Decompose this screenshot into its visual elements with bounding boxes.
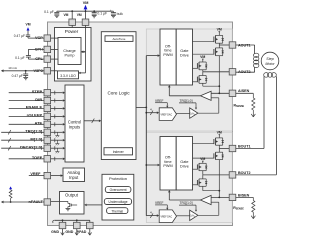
- svg-text:nSLEEP: nSLEEP: [27, 113, 43, 118]
- svg-text:VM: VM: [200, 157, 205, 161]
- pin BISEN: [229, 194, 236, 200]
- svg-text:ATE: ATE: [34, 121, 42, 126]
- gate lead HS-A2: [193, 67, 198, 69]
- wire GND rail: [55, 219, 90, 221]
- resistor RSENSE B: [236, 196, 254, 198]
- block Gate Drive B: [176, 137, 192, 191]
- svg-text:ENABLE: ENABLE: [26, 105, 43, 110]
- wire Protection to Output: [87, 204, 102, 206]
- wire winding B right lead to BOUT2: [275, 76, 277, 174]
- wire winding A to AOUT2: [254, 67, 256, 72]
- transistor HS-B2: [199, 162, 206, 164]
- bus vertical (to DACs and PWMs): [145, 56, 147, 216]
- svg-text:3.3-V LDO: 3.3-V LDO: [60, 74, 76, 78]
- capacitor 0.47uF (VCP): [27, 37, 29, 38]
- svg-text:0.47 µF: 0.47 µF: [14, 34, 25, 38]
- wire BOUT1 node: [218, 145, 220, 148]
- amplifier 1/AV B: [190, 210, 198, 220]
- pin V3P3: [44, 68, 51, 74]
- gate lead LS-B2: [193, 184, 198, 186]
- block Charge Pump: [58, 38, 81, 65]
- wire V3P3 to LDO: [51, 70, 58, 72]
- pin VM (top, #2): [82, 19, 89, 25]
- svg-text:Step: Step: [266, 57, 273, 61]
- pin AOUT1: [229, 42, 236, 48]
- pin GND (2): [74, 222, 81, 228]
- svg-text:Protection: Protection: [109, 176, 127, 181]
- svg-text:RSENSE: RSENSE: [233, 206, 244, 211]
- svg-text:VM: VM: [63, 13, 68, 17]
- svg-text:VM: VM: [77, 13, 82, 17]
- svg-text:VREF: VREF: [30, 172, 41, 176]
- svg-text:0.1 µF: 0.1 µF: [44, 10, 54, 14]
- block Protection: [102, 174, 134, 220]
- wire AISEN: [211, 92, 229, 94]
- wire AOUT1 node: [218, 43, 220, 45]
- transistor LS-B1: [216, 151, 223, 153]
- svg-text:0.47 µF: 0.47 µF: [12, 74, 23, 78]
- block AutoTune: [105, 36, 133, 42]
- wire VCP external: [28, 37, 44, 39]
- pin AOUT2: [229, 69, 236, 75]
- transistor HS-A1: [216, 34, 223, 36]
- block Undervoltage: [104, 199, 131, 205]
- junction dots GND rail: [62, 219, 64, 221]
- svg-text:VM: VM: [217, 28, 222, 32]
- ground (RSENSE A): [252, 110, 254, 117]
- wire LS-A1 source to sense: [218, 56, 220, 94]
- svg-text:TRQ[1:0]: TRQ[1:0]: [25, 129, 43, 134]
- pin CPL: [44, 56, 51, 62]
- transistor HS-A2: [199, 61, 206, 63]
- gate lead LS-A1: [193, 53, 214, 55]
- wire GND1 stub: [62, 220, 64, 222]
- wire CPL external: [27, 57, 29, 59]
- wire DAC B to amp: [177, 215, 190, 217]
- wire nFAULT external: [3, 201, 44, 203]
- wire comparator B output to PWM: [169, 199, 200, 201]
- wire comparator A feedback: [211, 97, 219, 99]
- junction dots on VM rail: [71, 10, 73, 12]
- svg-text:Output: Output: [65, 193, 79, 198]
- pin VM (top, #1): [69, 19, 76, 25]
- svg-text:Pump: Pump: [65, 54, 75, 58]
- svg-text:+: +: [110, 9, 112, 13]
- svg-text:TOFF: TOFF: [32, 155, 43, 160]
- wire AOUT1 to winding A: [236, 44, 255, 46]
- capacitor 0.1uF (left of VM rail): [56, 11, 58, 12]
- wire LS-B1 source to sense: [218, 160, 220, 198]
- transistor LS-A2: [199, 75, 206, 77]
- svg-text:AutoTune: AutoTune: [113, 37, 126, 41]
- svg-text:Overcurrent: Overcurrent: [110, 188, 127, 192]
- pin M[1:0]: [1, 139, 44, 141]
- svg-text:bulk: bulk: [117, 12, 124, 16]
- block Output: [60, 192, 85, 215]
- block Thermal: [107, 208, 128, 214]
- comparator B (current sense): [200, 195, 211, 204]
- svg-text:AISEN: AISEN: [238, 89, 250, 93]
- capacitor 0.1uF (CPH-CPL): [26, 55, 31, 57]
- wire VM to LDO: [79, 72, 86, 74]
- pin BOUT1: [229, 145, 236, 151]
- svg-text:VREF: VREF: [155, 201, 164, 205]
- svg-text:Input: Input: [69, 175, 79, 180]
- svg-text:VM: VM: [83, 1, 89, 5]
- wire DAC A to amp: [177, 113, 190, 115]
- wire BISEN: [211, 196, 229, 198]
- wire CPL to Charge Pump: [51, 58, 58, 60]
- wire Core Logic to bus: [136, 106, 146, 108]
- wire V3P3 external load: [3, 70, 44, 72]
- pin nFAULT: [44, 199, 51, 205]
- gate lead HS-B2: [193, 168, 198, 170]
- ground (RSENSE B): [252, 212, 254, 218]
- dac VREF DAC B: [159, 210, 176, 223]
- capacitor bulk (polarized): [112, 11, 114, 12]
- svg-text:GND: GND: [65, 230, 73, 234]
- svg-text:Undervoltage: Undervoltage: [109, 200, 128, 204]
- pin VREF: [44, 172, 51, 178]
- svg-text:VM: VM: [217, 131, 222, 135]
- channel B output-stage group box: [146, 132, 232, 222]
- block Control Inputs: [65, 85, 84, 162]
- transistor LS-A1: [216, 47, 223, 49]
- wire VCP to Charge Pump: [51, 37, 58, 39]
- wire VM pin2 stub: [85, 11, 87, 19]
- pin BOUT2: [229, 172, 236, 178]
- svg-text:AOUT1: AOUT1: [238, 43, 251, 47]
- svg-text:Drive: Drive: [180, 164, 189, 168]
- pin TOFF: [9, 158, 44, 160]
- transistor HS-B1: [216, 137, 223, 139]
- ground (GND1): [62, 229, 64, 235]
- wire nFAULT to output FET: [51, 200, 68, 202]
- svg-text:Thermal: Thermal: [111, 209, 123, 213]
- svg-text:STEP: STEP: [32, 89, 43, 94]
- svg-text:Inputs: Inputs: [69, 125, 80, 130]
- block Gate Drive A: [176, 29, 192, 85]
- svg-text:DECAY[1:0]: DECAY[1:0]: [20, 145, 43, 150]
- resistor nFAULT pull-up: [10, 198, 12, 202]
- wire VREF to Analog Input: [51, 175, 61, 177]
- transistor open-drain output: [67, 201, 69, 203]
- svg-text:CPL: CPL: [35, 57, 43, 61]
- inductor winding A: [254, 53, 259, 57]
- svg-text:Power: Power: [65, 29, 79, 35]
- wire comparator B feedback: [211, 201, 219, 203]
- svg-text:M[1:0]: M[1:0]: [30, 137, 42, 142]
- ground (GND2): [76, 229, 78, 235]
- svg-text:BISEN: BISEN: [238, 193, 250, 197]
- gate lead LS-A2: [193, 81, 198, 83]
- wire GND2 stub: [76, 220, 78, 222]
- block Power: [55, 28, 92, 82]
- wire PPAD stub: [89, 220, 91, 222]
- svg-text:VREF DAC: VREF DAC: [160, 215, 172, 218]
- pin DIR: [9, 100, 44, 102]
- bus Control Inputs to Core Logic: [84, 120, 99, 122]
- power flag VM (VCP cap): [27, 27, 30, 30]
- block Off-time PWM A: [160, 29, 176, 85]
- svg-text:TRQ[1:0]: TRQ[1:0]: [180, 99, 193, 103]
- wire LS-B2 source join: [202, 186, 204, 190]
- svg-text:Motor: Motor: [265, 62, 275, 66]
- node VM supply rail: [57, 10, 114, 12]
- svg-text:VREF DAC: VREF DAC: [160, 113, 172, 116]
- svg-text:BOUT2: BOUT2: [238, 171, 251, 175]
- gate lead LS-B1: [193, 157, 214, 159]
- wire winding B left lead to BOUT1: [263, 76, 265, 148]
- svg-text:VM: VM: [200, 55, 205, 59]
- channel A output-stage group box: [146, 29, 232, 131]
- wire BOUT2 node: [202, 171, 204, 175]
- svg-text:VREF: VREF: [155, 99, 164, 103]
- pin VCP: [44, 35, 51, 41]
- wire CPH to Charge Pump: [51, 48, 58, 50]
- gate lead HS-A1: [193, 41, 214, 43]
- pin CPH: [44, 46, 51, 52]
- pin STEP: [9, 92, 44, 94]
- svg-text:Core Logic: Core Logic: [107, 90, 130, 95]
- inductor winding B: [264, 73, 269, 78]
- amplifier 1/AV A: [190, 108, 198, 118]
- transistor LS-B2: [199, 178, 206, 180]
- pin nSLEEP: [9, 115, 44, 117]
- svg-text:Drive: Drive: [180, 53, 189, 57]
- pin PPAD: [87, 222, 94, 228]
- stepper motor symbol: [261, 52, 279, 70]
- wire bus to Off-time PWM B: [146, 164, 158, 166]
- svg-text:Charge: Charge: [63, 49, 75, 53]
- pin ATE: [9, 123, 44, 125]
- resistor RSENSE A: [236, 92, 254, 94]
- pin DECAY[1:0]: [1, 147, 44, 149]
- wire CPH external: [28, 48, 44, 50]
- wire LS-A2 source join: [202, 83, 204, 86]
- svg-text:TRQ[1:0]: TRQ[1:0]: [180, 201, 193, 205]
- block Overcurrent: [105, 187, 131, 193]
- comparator A (current sense): [200, 91, 211, 100]
- wire AOUT2 node: [202, 70, 204, 72]
- svg-text:GND: GND: [51, 230, 59, 234]
- power flag (nFAULT pull-up): [9, 186, 12, 189]
- svg-text:Indexer: Indexer: [113, 150, 125, 154]
- svg-text:PWM: PWM: [163, 164, 172, 168]
- block Off-time PWM B: [160, 137, 176, 191]
- ground (output FET): [66, 207, 71, 209]
- svg-text:1/AV: 1/AV: [190, 112, 196, 116]
- svg-text:10 mA: 10 mA: [8, 66, 17, 70]
- svg-text:0.1 µF: 0.1 µF: [15, 56, 24, 60]
- svg-text:VM: VM: [25, 23, 30, 27]
- capacitor 0.47uF (V3P3): [25, 71, 27, 74]
- svg-text:0.1 µF: 0.1 µF: [97, 11, 107, 15]
- bus to VREF DAC B (4): [146, 215, 157, 217]
- block 3.3-V LDO: [58, 71, 79, 79]
- svg-text:PWM: PWM: [163, 53, 172, 57]
- bus to VREF DAC A (4): [146, 112, 157, 114]
- wire VM pin1 stub: [71, 11, 73, 19]
- svg-text:1/AV: 1/AV: [190, 215, 196, 219]
- block Core Logic: [101, 32, 136, 160]
- wire VM to Charge Pump (bidirectional): [81, 51, 86, 53]
- block Analog Input: [63, 168, 85, 182]
- wire comparator A output to PWM: [169, 95, 200, 97]
- pin AISEN: [229, 90, 236, 96]
- gate lead HS-B1: [193, 143, 214, 145]
- svg-text:DIR: DIR: [35, 97, 42, 102]
- svg-text:BOUT1: BOUT1: [238, 144, 251, 148]
- chip outline (device boundary): [48, 22, 233, 226]
- dac VREF DAC A: [159, 108, 176, 121]
- wire VM pin1 into Power: [71, 25, 73, 27]
- pin TRQ[1:0]: [1, 131, 44, 133]
- pin ENABLE: [9, 107, 44, 109]
- wire VM pin2 feed (vertical): [85, 25, 87, 73]
- ground (PPAD): [89, 229, 91, 235]
- block Indexer: [104, 148, 133, 155]
- svg-text:RSENSE: RSENSE: [234, 104, 245, 109]
- wire bus to Off-time PWM A: [146, 55, 158, 57]
- pin GND (1): [59, 222, 66, 228]
- capacitor 0.1uF (right of VM pins): [93, 11, 95, 12]
